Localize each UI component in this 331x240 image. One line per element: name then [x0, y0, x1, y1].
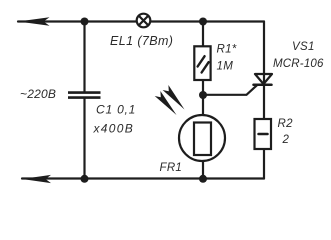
wire bottom bus	[22, 177, 264, 179]
svg-text:~220В: ~220В	[20, 87, 56, 101]
svg-text:х400В: х400В	[93, 122, 135, 136]
svg-text:2: 2	[282, 134, 290, 146]
svg-text:MCR-106: MCR-106	[273, 58, 324, 70]
wire top bus	[18, 20, 264, 22]
junction node D (bottom, FR1 branch)	[199, 175, 207, 183]
junction node A (top, C1 branch)	[81, 18, 89, 26]
svg-text:R1*: R1*	[217, 44, 237, 56]
thyristor VS1	[254, 74, 273, 85]
wire left branch upper (to C1 top plate)	[83, 22, 85, 93]
svg-text:1М: 1М	[217, 61, 234, 73]
resistor R2	[255, 119, 272, 149]
wire left branch lower (C1 bottom plate to bottom bus)	[83, 98, 85, 179]
svg-text:FR1: FR1	[160, 162, 183, 174]
light arrow 2 onto FR1	[163, 85, 185, 110]
wire thyristor gate	[203, 85, 257, 95]
light arrow 1 onto FR1	[155, 91, 177, 115]
junction node C (bottom, C1 branch)	[81, 175, 89, 183]
capacitor C1	[68, 93, 101, 98]
wire right branch (anode/thyristor/R2 vertical)	[263, 22, 265, 179]
wire middle branch (R1 / FR1 vertical)	[202, 22, 204, 179]
svg-text:R2: R2	[278, 118, 294, 130]
svg-text:EL1 (7Вт): EL1 (7Вт)	[110, 34, 173, 48]
arrow bottom-left (mains)	[22, 175, 51, 183]
arrow top-left (mains)	[18, 17, 50, 26]
photoresistor FR1	[179, 115, 225, 161]
junction node E (R1 bottom / gate)	[199, 91, 207, 99]
resistor R1	[194, 46, 210, 80]
svg-text:VS1: VS1	[292, 41, 315, 53]
svg-text:С1 0,1: С1 0,1	[96, 103, 136, 117]
junction node B (top, R1 branch)	[199, 18, 207, 26]
lamp EL1	[137, 14, 151, 28]
